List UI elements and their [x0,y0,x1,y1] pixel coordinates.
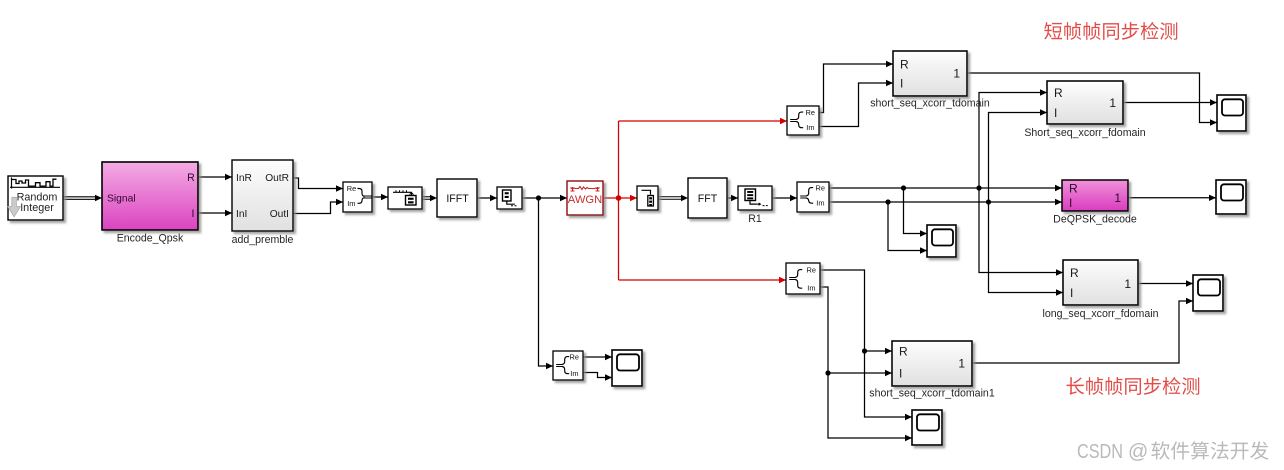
wire bot splitter Re to tdomain1 R / scope4 [820,270,912,420]
svg-text:R: R [899,344,908,358]
block scope4 tdomain1 (scope) [912,410,942,445]
block Unbuffer [497,187,522,209]
svg-text:Re: Re [570,353,579,362]
block Complex to Real-Imag splitter (bottom) [786,263,820,294]
svg-text:InR: InR [236,173,252,184]
svg-text:Im: Im [570,369,578,378]
annotation: red title 短帧帧同步检测 (short frame sync detection) [1044,22,1177,40]
wire tdomain1 out to scope3 [972,298,1193,363]
block R1 (selector) [738,186,772,225]
svg-text:1: 1 [953,66,960,80]
svg-text:R: R [1054,86,1063,100]
block Complex to Real-Imag splitter (top) [787,106,819,135]
block FFT [688,178,727,218]
wire top splitter Re to tdomain R [819,61,893,113]
svg-text:Re: Re [806,108,815,117]
svg-text:Signal: Signal [107,194,136,205]
block Random Integer source [8,176,63,220]
svg-text:I: I [1070,286,1073,300]
block DeQPSK_decode subsystem [1053,180,1137,226]
wire Im rail down to long_fdomain I [989,202,1064,296]
wire Re rail branch to scope5 top [904,188,928,237]
wire red branch to top splitter [619,118,788,124]
svg-text:Short_seq_xcorr_fdomain: Short_seq_xcorr_fdomain [1024,127,1145,139]
block Short_seq_xcorr_fdomain subsystem [1024,81,1145,139]
svg-text:@: @ [1128,441,1148,463]
wire Re rail up to Short_fdomain R [979,89,1047,188]
wire branch to tdomain1 I [828,370,892,376]
block scope5 mid (scope) [927,225,956,257]
watermark CSDN @软件算法开发 [1077,441,1269,463]
svg-text:Encode_Qpsk: Encode_Qpsk [117,233,184,245]
svg-text:Re: Re [347,184,356,193]
wire RandInt to Encode_Qpsk (double) [63,196,97,198]
wire red vertical trunk [618,121,620,280]
svg-text:AWGN: AWGN [568,194,602,206]
wire Im rail to DeQPSK I [829,199,1062,205]
svg-text:1: 1 [1109,96,1116,110]
block short_seq_xcorr_tdomain subsystem [870,51,990,110]
wire Re rail down to long_fdomain R [979,188,1063,276]
wire add_premble OutI to combiner Im [293,199,343,214]
wire Short_fdomain out to scope1 [1123,99,1217,105]
svg-text:Integer: Integer [20,202,54,214]
block short_seq_xcorr_tdomain1 subsystem [869,341,995,400]
svg-text:Im: Im [806,123,814,132]
svg-text:DeQPSK_decode: DeQPSK_decode [1053,214,1137,226]
wire Im rail up to Short_fdomain I [989,109,1048,202]
wire DeQPSK out to scope2 [1128,195,1216,201]
block Complex to Real-Imag splitter (mid) [797,182,829,212]
svg-text:I: I [900,76,903,90]
wire Im rail branch to scope5 bottom [888,202,927,254]
wire branch to tdomain1 R [865,348,893,354]
wire top splitter Im to tdomain I [819,80,893,127]
svg-text:CSDN: CSDN [1077,441,1123,463]
wire Buffer1 to FFT (double line) [658,195,688,201]
block Buffer2 (rebuffer) [637,186,658,210]
wire red junction dot [616,195,622,201]
block scope1 short-frame (scope) [1217,95,1246,131]
wire IFFT to Unbuffer [477,195,497,201]
svg-text:Re: Re [807,266,816,275]
svg-text:add_premble: add_premble [232,234,294,246]
svg-text:short_seq_xcorr_tdomain1: short_seq_xcorr_tdomain1 [869,388,995,400]
svg-text:OutI: OutI [270,209,289,220]
svg-text:OutR: OutR [265,173,289,184]
svg-text:1: 1 [1124,277,1131,291]
wire combiner to Buffer [372,194,388,200]
block long_seq_xcorr_fdomain subsystem [1042,260,1158,320]
svg-text:I: I [192,208,195,220]
wire Encode I to add_premble InI [198,210,232,216]
block Buffer (frame buffer) [388,187,422,209]
block AWGN channel [567,181,603,215]
block Encode_Qpsk (QPSK encoder subsystem) [102,162,198,245]
svg-text:I: I [899,366,902,380]
block scope2 decode (scope) [1216,180,1246,214]
wire Encode R to add_premble InR [198,174,232,180]
svg-text:Im: Im [816,198,824,207]
wire R1 to mid splitter [772,195,797,201]
wire Unbuffer to AWGN [522,195,567,201]
block Real-Imag to Complex combiner [343,182,372,212]
annotation: red title 长帧帧同步检测 (long frame sync detection) [1067,377,1200,395]
svg-text:Im: Im [807,283,815,292]
svg-text:Im: Im [347,199,355,208]
svg-text:R: R [900,57,909,71]
svg-text:R: R [187,172,195,184]
wire split4 Im to scope6 [583,373,612,381]
svg-text:R1: R1 [748,213,762,225]
block Complex to Real-Imag splitter (lower-left) [553,351,583,380]
block add_premble subsystem [232,160,294,246]
svg-text:InI: InI [236,209,247,220]
block scope3 long-frame (scope) [1193,275,1223,311]
svg-text:I: I [1069,196,1072,210]
svg-text:IFFT: IFFT [446,193,469,205]
wire Buffer to IFFT (double line) [422,195,437,201]
svg-text:short_seq_xcorr_tdomain: short_seq_xcorr_tdomain [870,98,990,110]
wire branch down to complex-split4 [539,198,554,369]
svg-text:1: 1 [1114,191,1121,205]
wire bot splitter Im to tdomain1 I / scope4 [820,287,912,441]
svg-text:FFT: FFT [698,193,718,205]
block scope6 lower-left (scope) [612,350,642,386]
wire AWGN out (red) [603,195,637,201]
svg-text:1: 1 [958,356,965,370]
wire FFT to R1 [727,195,738,201]
svg-text:I: I [1054,106,1057,120]
wire long_fdomain out to scope3 [1138,280,1193,286]
svg-text:long_seq_xcorr_fdomain: long_seq_xcorr_fdomain [1042,308,1158,320]
svg-text:Re: Re [816,184,825,193]
block IFFT [437,179,477,217]
wire Re rail to DeQPSK R [829,185,1062,191]
svg-text:R: R [1069,181,1078,195]
wire tdomain out to scope1 [967,73,1217,126]
wire split4 Re to scope6 [583,354,612,360]
wire add_premble OutR to combiner Re [293,178,343,192]
wire red branch to bottom splitter [619,277,787,283]
svg-text:R: R [1070,266,1079,280]
